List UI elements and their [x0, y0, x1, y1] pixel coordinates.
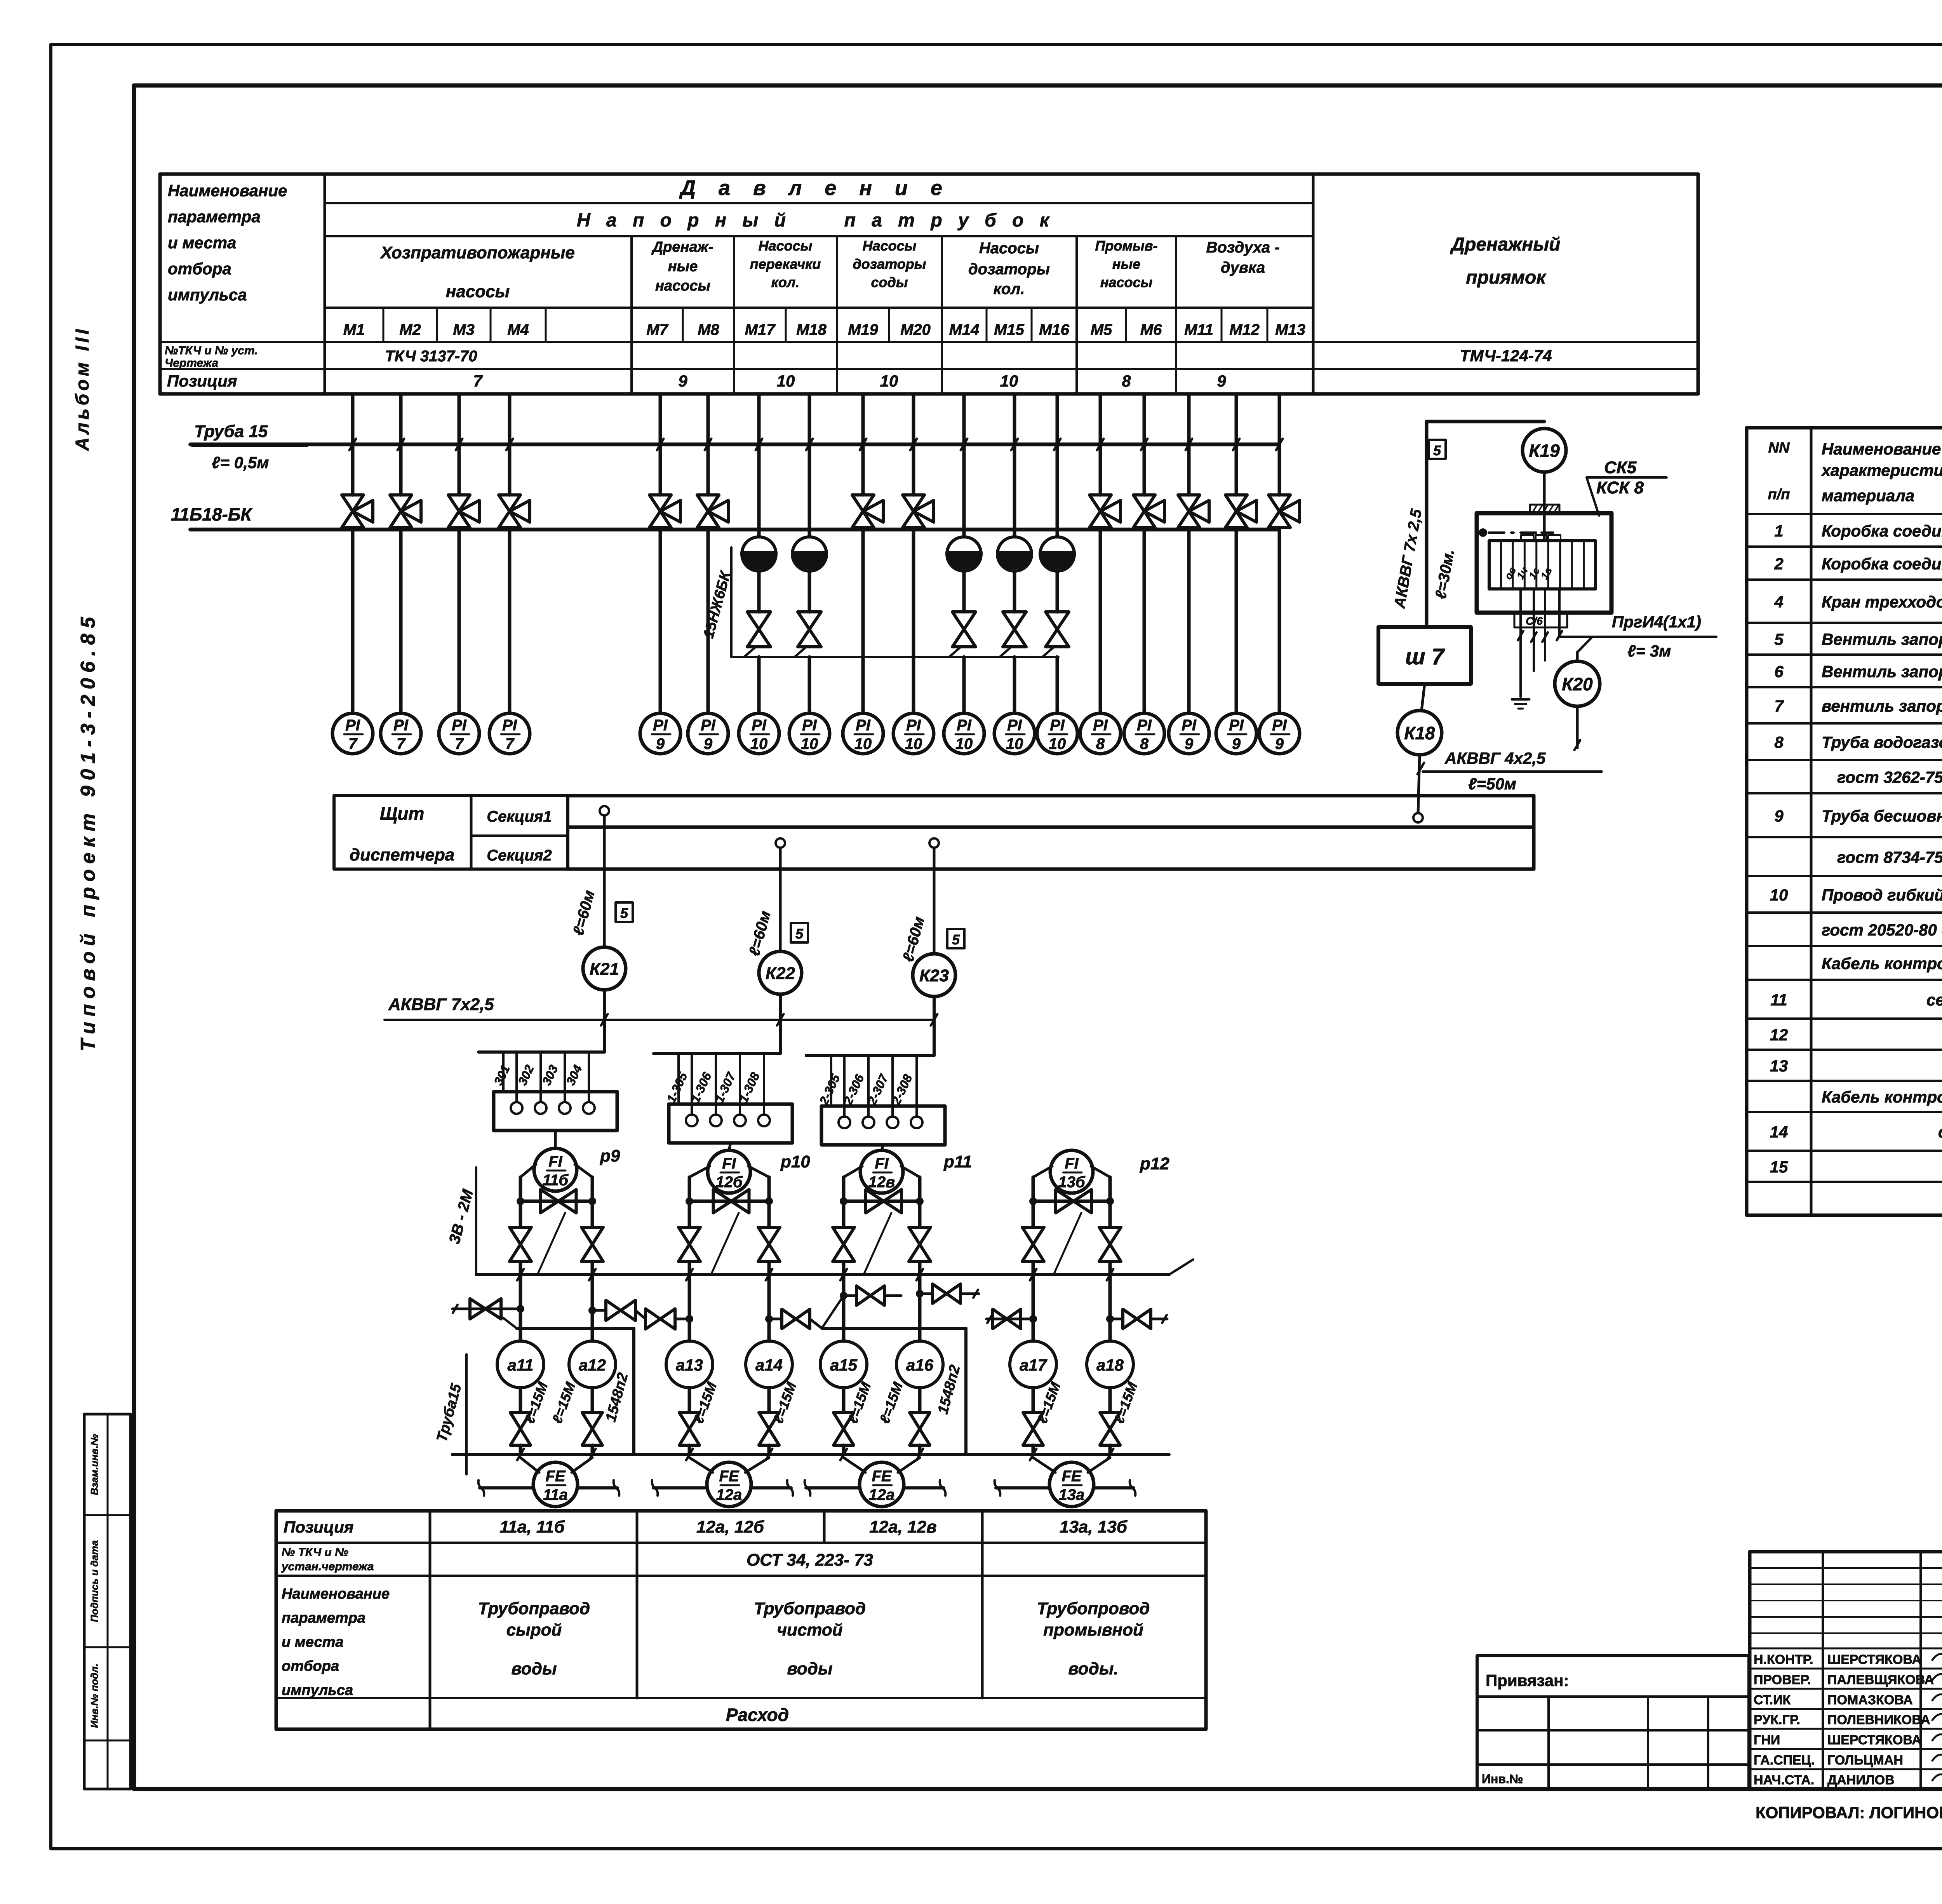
leader diagonal [1054, 1213, 1081, 1273]
process pipe right segment [578, 1486, 618, 1489]
svg-text:а17: а17 [1020, 1356, 1048, 1374]
svg-text:отбора: отбора [168, 260, 231, 278]
svg-text:гост 8734-75 / 8733-74: гост 8734-75 / 8733-74 [1837, 848, 1942, 866]
svg-text:М2: М2 [399, 321, 421, 338]
svg-text:дозаторы: дозаторы [853, 256, 926, 272]
bypass valve 3V-2M [866, 1190, 901, 1213]
svg-text:р9: р9 [600, 1146, 620, 1165]
leader diagonal [864, 1213, 891, 1273]
drop pipe with label 1548p2 [632, 1328, 635, 1455]
stub valves between a12 and a13 [592, 1309, 606, 1312]
pipe to drop line 1548p2 (first) [517, 1327, 634, 1330]
pressure gauge PI circle [332, 713, 373, 754]
svg-text:ные: ные [668, 258, 698, 275]
instrument circle &#1072;11 [497, 1341, 544, 1388]
right impulse pipe upper [767, 1177, 771, 1227]
flow indicator circle FI 11&#1073; [534, 1148, 577, 1191]
svg-text:Коробка соединительная: Коробка соединительная [1822, 555, 1942, 573]
svg-text:М7: М7 [646, 321, 668, 338]
process pipe left segment [653, 1486, 706, 1489]
bypass line with valve [1033, 1200, 1110, 1203]
junction box body [494, 1092, 617, 1131]
svg-text:Труба бесшовная 20х2,5 / В20: Труба бесшовная 20х2,5 / В20 [1822, 807, 1942, 825]
wire sh7 to K18 [1422, 684, 1425, 711]
svg-text:302: 302 [515, 1063, 536, 1087]
stub valve right of a14 [769, 1318, 782, 1320]
right shutoff valve 3V-2M [1099, 1227, 1121, 1261]
cable circle &#1050;23 [913, 954, 955, 996]
flow indicator circle FI 12&#1073; [708, 1150, 750, 1193]
right shutoff valve 3V-2M [581, 1227, 603, 1261]
level vessel on line (half filled) [1040, 537, 1074, 571]
svg-text:М17: М17 [745, 321, 776, 338]
drain jog to drain line [795, 646, 807, 657]
level vessel on line (half filled) [792, 537, 827, 571]
svg-text:FI: FI [875, 1155, 889, 1172]
svg-text:М16: М16 [1039, 321, 1070, 338]
svg-text:материала: материала [1822, 486, 1914, 505]
pressure gauge PI circle [688, 713, 728, 754]
svg-text:Хозпративопожарные: Хозпративопожарные [379, 243, 575, 262]
svg-text:10: 10 [854, 735, 872, 753]
terminal circle and wire 1-307 [739, 1054, 741, 1115]
FI impulse slant left [689, 1166, 710, 1177]
svg-text:11а: 11а [543, 1486, 568, 1503]
svg-text:импульса: импульса [168, 286, 247, 304]
pipe collector to circle &#1072;16 [918, 1275, 922, 1341]
terminal circle and wire 2-307 [891, 1056, 894, 1117]
svg-text:ℓ=30м.: ℓ=30м. [1432, 548, 1458, 600]
pipe collector to circle &#1072;12 [591, 1275, 594, 1341]
pipe valve to bottom collector [767, 1445, 771, 1455]
svg-text:Трубоправод: Трубоправод [478, 1599, 590, 1618]
impulse line M11 [1187, 394, 1191, 444]
cable circle &#1050;22 [759, 951, 802, 994]
cable circle K19 [1523, 429, 1566, 472]
svg-text:ℓ=60м: ℓ=60м [746, 909, 774, 958]
FI impulse slant right [1091, 1166, 1110, 1177]
svg-text:приямок: приямок [1466, 267, 1547, 288]
left impulse pipe upper [688, 1177, 691, 1227]
wire junction box to flow indicator FI 12&#1073; [729, 1143, 731, 1150]
junction dot a15 [840, 1292, 847, 1300]
svg-text:сечением: 4х2,5 мм²: сечением: 4х2,5 мм² [1926, 991, 1942, 1009]
svg-text:9: 9 [1232, 735, 1241, 753]
svg-text:Секция1: Секция1 [487, 808, 552, 825]
junction dot a17 [1029, 1315, 1037, 1323]
svg-text:7: 7 [473, 372, 483, 390]
right shutoff valve 3V-2M [909, 1227, 931, 1261]
svg-text:СТ.ИК: СТ.ИК [1754, 1693, 1791, 1707]
process pipe right segment [1094, 1486, 1134, 1489]
svg-text:р11: р11 [943, 1152, 972, 1171]
svg-text:АКВВГ 7х 2,5: АКВВГ 7х 2,5 [1391, 507, 1425, 610]
svg-text:FI: FI [1065, 1155, 1079, 1172]
svg-text:Секция2: Секция2 [487, 847, 552, 864]
three-way valve 11B18-BK [1099, 444, 1102, 495]
pressure gauge PI circle [944, 713, 984, 754]
left pipe to collector [1032, 1262, 1035, 1275]
svg-text:№ ТКЧ и №: № ТКЧ и № [282, 1546, 348, 1559]
terminal box top tab [1530, 505, 1559, 513]
svg-text:отбора: отбора [282, 1658, 339, 1674]
right pipe to collector [918, 1262, 922, 1275]
junction box body [669, 1104, 792, 1143]
left impulse pipe upper [519, 1177, 522, 1227]
drain jog to drain line [1042, 646, 1055, 657]
svg-text:Д а в л е н и е: Д а в л е н и е [679, 176, 951, 200]
svg-text:304: 304 [563, 1063, 585, 1087]
svg-text:13б: 13б [1058, 1174, 1085, 1191]
svg-text:13а: 13а [1059, 1486, 1085, 1503]
svg-text:9: 9 [1185, 735, 1194, 753]
stub valve left of a11 [452, 1308, 520, 1310]
impulse line M12 [1235, 394, 1238, 444]
svg-text:7: 7 [397, 735, 406, 753]
svg-text:Вентиль запорный стальной Ду=3: Вентиль запорный стальной Ду=3мм [1822, 630, 1942, 648]
top table M-cell dividers [383, 308, 385, 342]
svg-text:РУК.ГР.: РУК.ГР. [1754, 1712, 1800, 1727]
dispatcher board box Schit dispetchera [334, 796, 568, 869]
left pipe to collector [519, 1262, 522, 1275]
svg-text:5: 5 [1433, 442, 1441, 458]
svg-text:ТМЧ-124-74: ТМЧ-124-74 [1460, 347, 1552, 365]
level vessel on line (half filled) [947, 537, 981, 571]
svg-text:303: 303 [539, 1063, 560, 1087]
shutoff valve 15NZh6vK [962, 571, 966, 612]
svg-text:Кран трехходовой.: Кран трехходовой. [1822, 593, 1942, 611]
svg-text:М8: М8 [698, 321, 719, 338]
svg-text:М20: М20 [900, 321, 931, 338]
svg-text:ШЕРСТЯКОВА: ШЕРСТЯКОВА [1827, 1733, 1921, 1747]
svg-text:М19: М19 [848, 321, 879, 338]
wire K19 to terminal box [1543, 472, 1546, 541]
svg-text:диспетчера: диспетчера [350, 845, 455, 864]
svg-text:Чертежа: Чертежа [165, 357, 218, 369]
stub valve right of a15 [844, 1294, 856, 1297]
right impulse pipe upper [591, 1177, 594, 1227]
wire below K20 [1576, 706, 1579, 748]
pressure gauge PI circle [893, 713, 934, 754]
bracket for label 15NZh6BK [730, 547, 733, 657]
svg-text:FE: FE [545, 1468, 566, 1485]
node circle K18 on bus [1413, 813, 1423, 822]
left shutoff valve 3V-2M [833, 1227, 854, 1261]
junction dot a16 [916, 1290, 924, 1298]
pipe below &#1072;16 [918, 1388, 922, 1412]
cable riser AKVVG 7x2.5 to box sh7 [1425, 422, 1429, 627]
svg-text:13а, 13б: 13а, 13б [1060, 1517, 1128, 1536]
junction box feed wire horizontal [806, 1054, 934, 1057]
level vessel on line (half filled) [742, 537, 776, 571]
svg-text:импульса: импульса [282, 1682, 353, 1698]
svg-text:PI: PI [1007, 717, 1022, 734]
svg-text:гост 20520-80 сечением 1мм²: гост 20520-80 сечением 1мм² [1822, 921, 1942, 939]
svg-text:промывной: промывной [1043, 1620, 1143, 1639]
wire junction box to flow indicator FI 12&#1074; [882, 1145, 883, 1150]
pipe to drop line 1548p2 (second) [822, 1327, 966, 1330]
svg-text:Н.КОНТР.: Н.КОНТР. [1754, 1652, 1813, 1667]
svg-text:а12: а12 [579, 1356, 606, 1374]
svg-text:гост 3262-75.: гост 3262-75. [1837, 768, 1942, 786]
drain jog to drain line [744, 646, 757, 657]
left shutoff valve 3V-2M [679, 1227, 700, 1261]
junction dot a11 [517, 1305, 524, 1313]
svg-text:воды.: воды. [1068, 1659, 1118, 1678]
svg-text:9: 9 [1275, 735, 1284, 753]
drain wire 1 with ground [1519, 589, 1522, 697]
svg-text:сырой: сырой [506, 1620, 562, 1639]
impulse diagonal to FE 13&#1072; right [1088, 1458, 1110, 1472]
svg-text:ПргИ4(1х1): ПргИ4(1х1) [1612, 613, 1701, 631]
horizontal link to K19 [1427, 420, 1544, 423]
svg-text:11Б18-БК: 11Б18-БК [171, 504, 252, 524]
svg-text:ПОМАЗКОВА: ПОМАЗКОВА [1827, 1693, 1913, 1707]
marker box 5 on cable [791, 923, 808, 942]
drain jog to drain line [949, 646, 962, 657]
svg-text:FI: FI [722, 1155, 736, 1172]
svg-text:3В - 2М: 3В - 2М [446, 1187, 477, 1246]
svg-text:М13: М13 [1275, 321, 1305, 338]
shutoff valve 1548p2 below &#1072;16 [910, 1413, 930, 1445]
svg-text:ОСТ 34, 223- 73: ОСТ 34, 223- 73 [747, 1550, 873, 1570]
stub wire at feed line [502, 1052, 505, 1092]
impulse line M15 [1013, 394, 1016, 444]
three-way valve 11B18-BK [351, 444, 355, 495]
cable from bus to &#1050;22 [779, 848, 782, 951]
left shutoff valve 3V-2M [510, 1227, 531, 1261]
svg-text:Наименование: Наименование [282, 1586, 390, 1602]
svg-text:8: 8 [1774, 733, 1784, 751]
cable circle K18 [1397, 711, 1442, 755]
left shutoff valve 3V-2M [1022, 1227, 1044, 1261]
svg-text:КОПИРОВАЛ: ЛОГИНОВА: КОПИРОВАЛ: ЛОГИНОВА [1756, 1803, 1942, 1822]
svg-text:12б: 12б [715, 1174, 743, 1191]
pipe valve to bottom collector [688, 1445, 691, 1455]
terminal circle and wire 304 [588, 1052, 590, 1102]
svg-text:PI: PI [1272, 717, 1287, 734]
svg-text:ℓ=15М: ℓ=15М [876, 1380, 906, 1425]
shutoff valve 1548p2 below &#1072;18 [1100, 1413, 1120, 1445]
instrument circle &#1072;18 [1087, 1341, 1133, 1388]
junction dot a13 [686, 1315, 693, 1323]
pressure gauge PI circle [1169, 713, 1209, 754]
impulse line M1 [351, 394, 355, 444]
right impulse pipe upper [1108, 1177, 1112, 1227]
svg-text:FE: FE [872, 1468, 892, 1485]
svg-text:ГА.СПЕЦ.: ГА.СПЕЦ. [1754, 1753, 1815, 1768]
FI impulse slant left [844, 1166, 862, 1177]
svg-text:ℓ=60м: ℓ=60м [570, 888, 598, 937]
svg-text:воды: воды [787, 1659, 832, 1678]
right pipe to collector [591, 1262, 594, 1275]
svg-text:PI: PI [1182, 717, 1197, 734]
privyazan table [1477, 1656, 1749, 1789]
impulse diagonal to FE 11&#1072; right [572, 1458, 592, 1472]
flow indicator circle FI 12&#1074; [860, 1150, 903, 1193]
top table group dividers [630, 236, 633, 394]
bus wire section2 bottom [568, 868, 1534, 871]
svg-text:9: 9 [656, 735, 665, 753]
cable line AKVVG 7x2.5 horizontal [385, 1019, 934, 1021]
impulse line M13 [1278, 394, 1281, 444]
stub valve left of a17 [987, 1318, 1033, 1320]
bypass valve 3V-2M [713, 1190, 749, 1213]
svg-text:К20: К20 [1562, 674, 1593, 694]
svg-text:9: 9 [1774, 807, 1784, 825]
bottom table column lines [429, 1511, 432, 1729]
svg-text:FI: FI [548, 1153, 562, 1170]
process pipe left segment [996, 1486, 1049, 1489]
svg-text:7: 7 [1774, 697, 1784, 715]
svg-text:Насосы: Насосы [979, 240, 1039, 257]
svg-text:12: 12 [1770, 1026, 1788, 1044]
shutoff valve 15NZh6vK [1013, 571, 1016, 612]
svg-text:10: 10 [801, 735, 818, 753]
ground symbol [1512, 698, 1529, 701]
cable from bus to &#1050;21 [603, 815, 606, 947]
svg-text:ℓ=15М: ℓ=15М [549, 1380, 578, 1425]
cable drop to junction box 2 [779, 994, 782, 1054]
marker box 5 on riser [1429, 440, 1446, 459]
svg-text:насосы: насосы [446, 282, 510, 301]
svg-text:Наименование: Наименование [168, 181, 287, 200]
impulse line M19 [861, 394, 865, 444]
right pipe to collector [1108, 1262, 1112, 1275]
pipe below &#1072;13 [688, 1388, 691, 1412]
svg-text:а14: а14 [755, 1356, 783, 1374]
svg-text:11: 11 [1770, 991, 1787, 1009]
pressure gauge PI circle [1216, 713, 1256, 754]
svg-text:К22: К22 [766, 964, 795, 983]
top table: name column divider [324, 174, 326, 394]
three-way valve 11B18-BK [1143, 444, 1146, 495]
svg-text:параметра: параметра [282, 1610, 365, 1626]
stub valve right of a18 [1110, 1318, 1123, 1320]
shutoff valve 15NZh6vK [757, 571, 761, 612]
left impulse pipe upper [1032, 1177, 1035, 1227]
instrument circle &#1072;17 [1010, 1341, 1056, 1388]
svg-text:11б: 11б [543, 1172, 569, 1189]
flow element circle FE 11&#1072; [533, 1462, 578, 1507]
svg-text:М15: М15 [994, 321, 1025, 338]
svg-text:АКВВГ 7х2,5: АКВВГ 7х2,5 [388, 995, 494, 1014]
svg-text:АКВВГ 4х2,5: АКВВГ 4х2,5 [1444, 749, 1546, 767]
svg-text:К23: К23 [919, 966, 949, 985]
svg-text:М4: М4 [507, 321, 529, 338]
flow indicator circle FI 13&#1073; [1050, 1150, 1093, 1193]
svg-text:Коробка соединительная: Коробка соединительная [1822, 522, 1942, 540]
svg-text:PI: PI [452, 717, 467, 734]
terminal circle and wire 1-305 [691, 1054, 693, 1115]
node circle K21 on bus [600, 806, 609, 815]
impulse line M17 [757, 394, 761, 444]
svg-text:12а: 12а [716, 1486, 742, 1503]
FI impulse slant left [520, 1164, 536, 1177]
diagonal from a11 valve to pipe 1548p2 [503, 1318, 517, 1328]
svg-text:М14: М14 [949, 321, 980, 338]
leader diagonal [712, 1213, 739, 1273]
cable drop to junction box 3 [933, 996, 936, 1056]
svg-text:PI: PI [1137, 717, 1152, 734]
bottom table row lines [276, 1542, 1206, 1544]
svg-text:PI: PI [906, 717, 921, 734]
bypass line with valve [689, 1200, 769, 1203]
shutoff valve 1548p2 below &#1072;15 [834, 1413, 854, 1445]
wire K18 to bus node [1418, 755, 1420, 813]
pipe collector to circle &#1072;14 [767, 1275, 771, 1341]
svg-text:Трубоправод: Трубоправод [754, 1599, 866, 1618]
marker box 5 on cable [616, 902, 633, 922]
svg-text:9: 9 [678, 372, 687, 390]
process pipe right segment [904, 1486, 944, 1489]
leader to K20 [1577, 637, 1592, 652]
instrument circle &#1072;15 [820, 1341, 867, 1388]
bottom collector line [452, 1453, 1169, 1456]
impulse line M6 [1143, 394, 1146, 444]
right shutoff valve 3V-2M [758, 1227, 780, 1261]
pipe collector to circle &#1072;17 [1032, 1275, 1035, 1341]
three-way valve 11B18-BK [458, 444, 461, 495]
leader diagonal [538, 1213, 565, 1273]
svg-text:10: 10 [1000, 372, 1018, 390]
FI impulse slant right [748, 1166, 769, 1177]
svg-text:п/п: п/п [1768, 486, 1790, 503]
drain wire 4 to PRGI line [1558, 589, 1561, 637]
impulse diagonal to FE 12&#1072; right [898, 1458, 920, 1472]
pipe below &#1072;14 [767, 1388, 771, 1412]
impulse line M16 [1056, 394, 1059, 444]
three-way valve 11B18-BK [399, 444, 403, 495]
svg-text:НАЧ.СТА.: НАЧ.СТА. [1754, 1773, 1814, 1787]
svg-text:ПАЛЕВЩЯКОВА: ПАЛЕВЩЯКОВА [1827, 1672, 1934, 1687]
diagonal a15 to cross pipe [822, 1296, 844, 1328]
svg-text:а11: а11 [508, 1356, 534, 1374]
impulse diagonal to FE 12&#1072; right [745, 1458, 769, 1472]
svg-text:К19: К19 [1529, 441, 1560, 461]
svg-text:М18: М18 [796, 321, 827, 338]
three-way valve 11B18-BK [912, 444, 915, 495]
svg-text:8: 8 [1096, 735, 1105, 753]
svg-text:и места: и места [282, 1634, 344, 1650]
svg-text:5: 5 [1774, 630, 1784, 648]
svg-text:К21: К21 [590, 960, 619, 979]
svg-text:6: 6 [1774, 662, 1784, 681]
spec table column lines [1810, 428, 1813, 1215]
junction box feed wire horizontal [479, 1050, 604, 1054]
svg-text:PI: PI [802, 717, 817, 734]
junction dot a18 [1106, 1315, 1114, 1323]
flow element circle FE 12&#1072; [860, 1462, 904, 1507]
bracket label 3V-2M [475, 1167, 477, 1275]
svg-text:ℓ= 0,5м: ℓ= 0,5м [212, 453, 269, 472]
svg-text:Расход: Расход [726, 1705, 789, 1725]
svg-text:ПОЛЕВНИКОВА: ПОЛЕВНИКОВА [1827, 1712, 1930, 1727]
impulse line M4 [508, 394, 512, 444]
shutoff valve 15NZh6vK [808, 571, 811, 612]
svg-text:а13: а13 [676, 1356, 703, 1374]
stub valve right of a16 [920, 1293, 933, 1295]
pipe below &#1072;17 [1032, 1388, 1035, 1412]
pipe collector to circle &#1072;11 [519, 1275, 522, 1341]
drain wire 2 [1533, 589, 1535, 671]
cable circle K20 [1555, 661, 1600, 706]
pipe valve to bottom collector [1032, 1445, 1035, 1455]
svg-text:Труба 15: Труба 15 [194, 422, 268, 441]
bus wire section1 bottom [568, 826, 1534, 829]
junction box feed wire horizontal [654, 1052, 780, 1055]
svg-text:2-305: 2-305 [816, 1072, 843, 1107]
